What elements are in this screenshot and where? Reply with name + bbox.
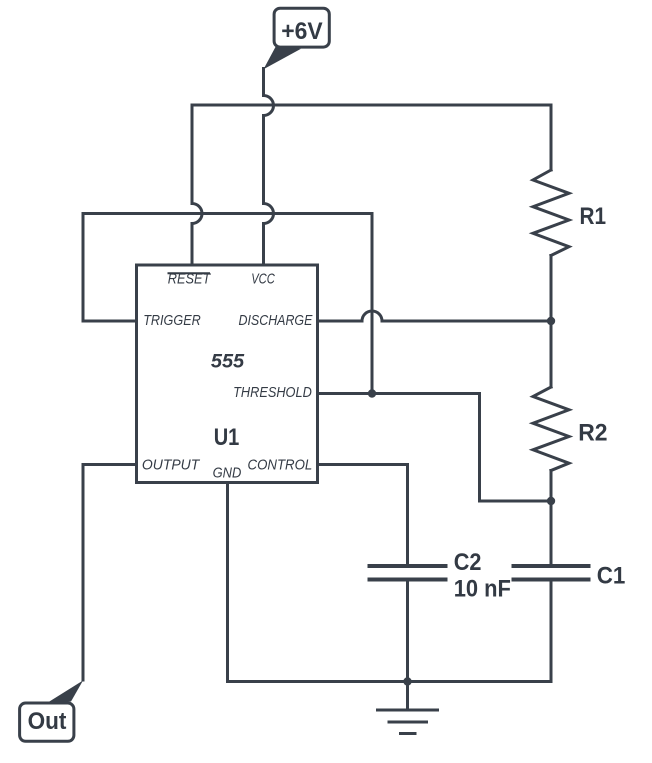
wire R1 bottom to discharge node — [550, 256, 553, 322]
wire top horizontal VCC rail — [192, 104, 551, 107]
svg-text:C1: C1 — [597, 563, 626, 590]
wire THRESHOLD horizontal — [318, 392, 480, 395]
wire trigger-threshold horizontal — [83, 212, 372, 215]
wire discharge node to R2 top — [550, 321, 553, 387]
capacitor C2 — [370, 566, 446, 580]
wire OUTPUT to Out flag — [83, 465, 136, 681]
flag Out — [20, 681, 83, 742]
wire C1 bottom plate down to bottom rail — [550, 582, 553, 682]
wire DISCHARGE to R1/R2 node with hop over x372 — [318, 311, 551, 321]
ic U1 box — [137, 265, 318, 483]
wire vertical x372 down to threshold junction — [371, 214, 374, 394]
ground — [378, 682, 438, 734]
node threshold junction — [368, 389, 376, 397]
wire left vertical to TRIGGER — [83, 214, 136, 322]
svg-text:10 nF: 10 nF — [454, 576, 511, 603]
wire R1 top vertical — [550, 105, 553, 170]
node discharge/R1/R2 junction — [547, 317, 555, 325]
svg-text:U1: U1 — [214, 424, 240, 451]
svg-text:C2: C2 — [454, 549, 482, 576]
svg-text:+6V: +6V — [281, 18, 322, 45]
wire R2 bottom to node — [550, 471, 553, 502]
wire from +6V flag to VCC pin with hops — [264, 69, 274, 266]
svg-text:R1: R1 — [580, 203, 607, 230]
svg-text:THRESHOLD: THRESHOLD — [233, 384, 312, 401]
wire node down to C1 top plate — [550, 501, 553, 564]
wire threshold down and right to R2 bottom node — [480, 394, 552, 502]
svg-text:CONTROL: CONTROL — [248, 457, 313, 474]
svg-text:GND: GND — [213, 465, 242, 482]
svg-text:DISCHARGE: DISCHARGE — [239, 312, 314, 329]
resistor R1 — [533, 170, 569, 256]
svg-text:R2: R2 — [578, 420, 607, 447]
resistor R2 — [533, 387, 569, 471]
svg-text:Out: Out — [28, 708, 67, 735]
node ground junction — [403, 677, 411, 685]
svg-text:VCC: VCC — [251, 271, 275, 288]
svg-text:TRIGGER: TRIGGER — [143, 312, 201, 329]
wire GND pin down and bottom rail — [228, 483, 552, 682]
svg-text:555: 555 — [211, 352, 245, 373]
node R2 bottom / C1 junction — [547, 497, 555, 505]
svg-text:OUTPUT: OUTPUT — [142, 457, 201, 474]
capacitor C1 — [514, 566, 589, 580]
power flag +6V — [264, 8, 330, 69]
wire from top rail corner down to RESET pin with hop — [192, 105, 202, 265]
wire C2 bottom to ground rail — [406, 582, 409, 682]
wire CONTROL to C2 — [318, 465, 408, 565]
